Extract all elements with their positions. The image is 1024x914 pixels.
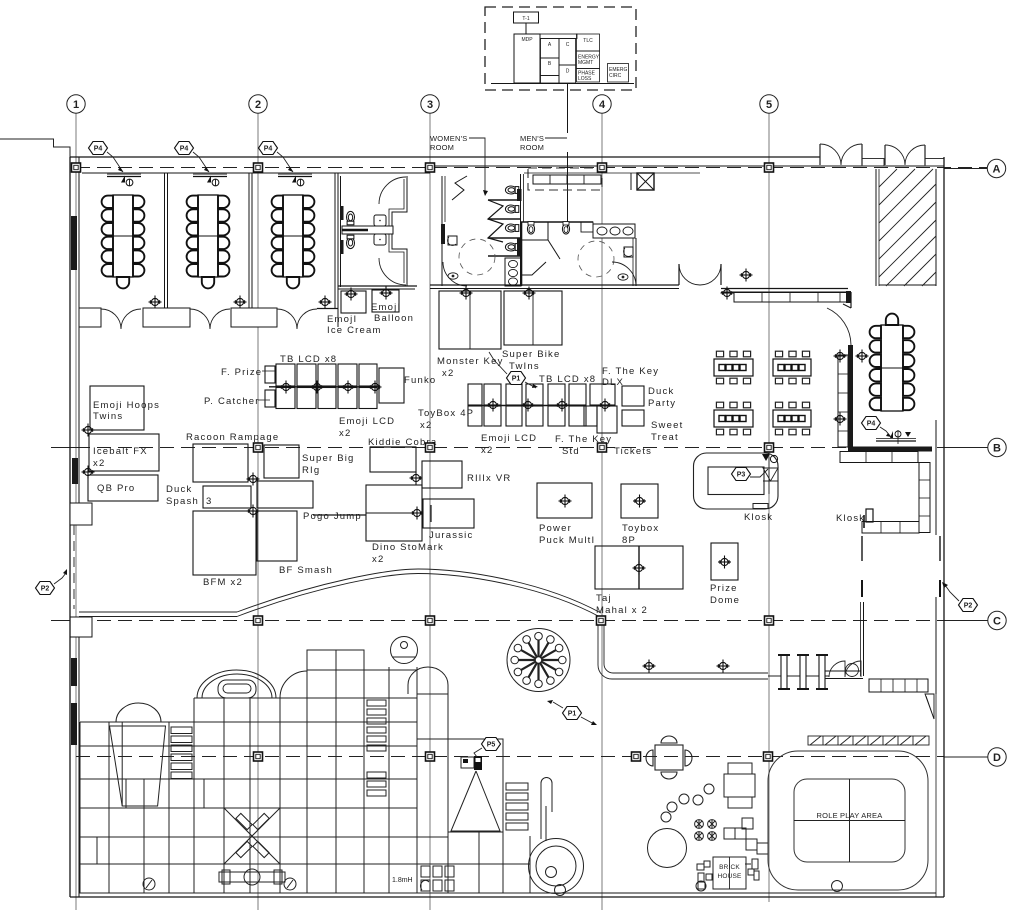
cluster1 boxes upper row: [276, 364, 295, 386]
svg-text:x2: x2: [420, 420, 432, 431]
bubble C: [988, 611, 1006, 629]
svg-text:P3: P3: [737, 472, 746, 479]
svg-text:P. Catcher: P. Catcher: [204, 396, 260, 407]
women's turning circle dashed: [459, 239, 495, 275]
svg-text:x2: x2: [93, 458, 105, 469]
P1 marker cluster2: [489, 352, 538, 388]
playground slat ladder left: [171, 727, 192, 779]
P4 desk bottom right: [876, 430, 916, 444]
meeting table 3: [272, 195, 315, 288]
svg-text:x2: x2: [442, 368, 454, 379]
panel ENERGY MGMT: [577, 51, 600, 69]
men's lavatory counter: [593, 224, 635, 238]
bubble D: [988, 748, 1006, 766]
left wall lower column fills: [71, 658, 77, 686]
game Super Big Rig box: [264, 445, 299, 478]
panel PHASE LOSS: [577, 69, 600, 83]
stall partition walls: [488, 199, 520, 201]
men's exit sign: [618, 274, 628, 280]
playground 1.8mH squares: [420, 866, 454, 891]
svg-text:C: C: [566, 42, 570, 48]
bubble A: [987, 159, 1005, 177]
svg-text:Jurassic: Jurassic: [429, 530, 473, 541]
svg-text:P4: P4: [264, 146, 273, 153]
party room sprinklers: [834, 350, 847, 363]
playground crawl bar: [219, 869, 285, 885]
grid line 4 vertical: [601, 113, 603, 910]
right exterior wall: [943, 157, 945, 897]
bottom right counter segmented: [869, 679, 928, 692]
women's room left wall: [441, 176, 443, 286]
game QB Pro box: [88, 475, 158, 501]
svg-text:P4: P4: [180, 146, 189, 153]
bottom right diagonal ramp: [925, 694, 934, 719]
svg-text:BF Smash: BF Smash: [279, 565, 333, 576]
svg-text:Super Big: Super Big: [302, 453, 355, 464]
game Emoji Hoops Twins box: [90, 386, 144, 430]
svg-text:BRICK: BRICK: [719, 864, 740, 871]
svg-text:RIlIx VR: RIlIx VR: [467, 473, 511, 484]
P4 marker room3: [259, 142, 294, 173]
playground right mid slats: [367, 700, 386, 796]
men's door arc: [612, 262, 636, 286]
top exterior wall outer line: [70, 156, 820, 158]
offset brick lines: [125, 779, 127, 808]
game Funko box: [379, 368, 404, 403]
svg-text:Duck: Duck: [648, 386, 674, 397]
canopy straight segment: [79, 611, 237, 613]
P4 marker party room: [862, 417, 892, 438]
women's exit sign: [448, 273, 458, 279]
men's small closet box: [581, 222, 593, 232]
svg-text:ToyBox 4P: ToyBox 4P: [418, 408, 474, 419]
track sprinklers: [643, 660, 656, 673]
cluster2 boxes lower row: [468, 406, 482, 426]
family restroom door top arc: [379, 177, 406, 204]
svg-text:Racoon Rampage: Racoon Rampage: [186, 432, 279, 443]
panel bottom bus line: [491, 83, 634, 85]
game Rilix VR box: [422, 461, 462, 488]
sprinkler room2: [234, 296, 247, 309]
svg-text:P1: P1: [568, 711, 577, 718]
playground dome left: [116, 703, 161, 722]
room 1 double door arcs: [101, 309, 141, 329]
svg-text:Dome: Dome: [710, 595, 740, 606]
family restroom sink upper: [374, 215, 386, 226]
P2 marker right: [942, 582, 978, 612]
game Racoon Rampage box: [193, 444, 248, 482]
game Taj Mahal x2 box: [595, 546, 683, 589]
svg-text:P2: P2: [41, 586, 50, 593]
svg-text:C: C: [993, 616, 1001, 628]
track gate 1: [778, 655, 790, 689]
svg-text:Puck MultI: Puck MultI: [539, 535, 595, 546]
men's soap fixture: [624, 247, 633, 257]
toddler column stack: [724, 763, 755, 808]
playground right extension grid: [417, 694, 530, 893]
bottom exterior wall: [70, 896, 944, 898]
women's lavatory bank: [505, 258, 521, 286]
entry right panel: [925, 159, 944, 167]
svg-text:Balloon: Balloon: [374, 313, 414, 324]
svg-text:8P: 8P: [622, 535, 636, 546]
role play outer rounded boundary: [768, 751, 928, 890]
game Jurassic box: [423, 499, 474, 528]
svg-text:TLC: TLC: [583, 38, 593, 44]
svg-text:Power: Power: [539, 523, 572, 534]
family restroom right wall with alcoves: [392, 176, 407, 286]
svg-text:Emoji LCD: Emoji LCD: [481, 433, 537, 444]
sprinkler room3: [319, 296, 332, 309]
canopy arc: [237, 569, 601, 613]
left wall pier box at C: [70, 617, 92, 637]
grid line 5 vertical: [768, 113, 770, 902]
game Prize Dome box: [711, 543, 738, 580]
feeder line T-1 to MDP: [525, 23, 527, 34]
grid line 3 vertical: [429, 113, 431, 910]
left exterior wall upper: [69, 157, 71, 609]
svg-text:LOSS: LOSS: [578, 76, 592, 82]
svg-text:Emoji Hoops: Emoji Hoops: [93, 400, 160, 411]
family restroom sink lower: [374, 234, 386, 245]
svg-text:Twins: Twins: [93, 411, 123, 422]
women's room entry privacy zigzag: [452, 176, 467, 200]
svg-text:EmojI: EmojI: [371, 302, 401, 313]
role play bottom circle: [832, 881, 843, 892]
svg-text:Mahal x 2: Mahal x 2: [596, 605, 648, 616]
svg-text:P4: P4: [94, 146, 103, 153]
rooms bottom wall piers: [79, 308, 101, 327]
grid line D horizontal dashed: [76, 756, 944, 758]
toddler table with chairs: [646, 736, 692, 779]
svg-text:Duck: Duck: [166, 484, 192, 495]
svg-text:Prize: Prize: [710, 583, 738, 594]
grid line C horizontal dashed: [51, 620, 76, 622]
women's door arc: [443, 262, 467, 286]
bubble 5: [760, 95, 778, 113]
svg-text:1: 1: [73, 99, 79, 111]
BRICK HOUSE box: [713, 857, 746, 889]
family restroom bottom wall: [338, 285, 417, 287]
soap fixture women's: [448, 236, 457, 245]
svg-text:x2: x2: [339, 428, 351, 439]
toddler figure blocks right of brick house: [745, 859, 759, 880]
svg-text:EmojI: EmojI: [327, 314, 357, 325]
P1 marker track: [547, 700, 597, 725]
P5 marker camera tower: [474, 738, 501, 758]
panel top strip: [540, 34, 577, 39]
svg-text:Super Bike: Super Bike: [502, 349, 560, 360]
playground X rope feature: [224, 808, 280, 864]
panel EMERG CIRC: [608, 64, 629, 83]
grid line A horizontal dashed: [76, 167, 987, 169]
corridor door arc at hallway: [679, 264, 721, 285]
feeder drop to men's room: [567, 84, 569, 134]
svg-text:MDP: MDP: [521, 37, 533, 43]
svg-text:BFM x2: BFM x2: [203, 577, 243, 588]
panel strip below B: [541, 76, 560, 84]
party room west counter segmented: [838, 355, 848, 447]
meeting room 3 TV mount: [278, 174, 312, 186]
svg-text:Funko: Funko: [404, 375, 436, 386]
panel MDP: [514, 34, 540, 83]
svg-text:x2: x2: [372, 554, 384, 565]
meeting room 2 TV mount: [193, 174, 227, 186]
party room thick south wall: [848, 447, 932, 452]
playground right arch: [280, 671, 307, 698]
meeting table 2: [187, 195, 230, 288]
svg-text:QB Pro: QB Pro: [97, 483, 135, 494]
room 2 double door arcs: [190, 309, 230, 329]
grid marker squares: [72, 163, 81, 172]
svg-text:T-1: T-1: [522, 16, 529, 22]
games below family restroom: Emoji Ice Cream: [341, 291, 366, 313]
toddler block shapes: [724, 818, 768, 854]
svg-text:2: 2: [255, 99, 261, 111]
svg-text:Sweet: Sweet: [651, 420, 683, 431]
toddler figure blocks left of brick house: [696, 861, 712, 891]
kiosk L counter: horizontal: [862, 522, 919, 534]
svg-text:Icebalt FX: Icebalt FX: [93, 446, 148, 457]
game Dino Stomark box: [366, 485, 422, 541]
bubble B: [988, 438, 1006, 456]
corridor counter black end: [846, 291, 851, 303]
party room thick west wall: [848, 345, 853, 451]
bubble 2: [249, 95, 267, 113]
men's turning circle dashed: [578, 241, 614, 277]
svg-text:TwIns: TwIns: [509, 361, 540, 372]
transformer T-1: [514, 12, 539, 23]
svg-text:Pogo Jump: Pogo Jump: [303, 511, 362, 522]
svg-text:Klosk: Klosk: [836, 513, 865, 524]
svg-text:ROOM: ROOM: [520, 143, 544, 152]
role play inner structure: [794, 779, 905, 862]
panel D: [559, 65, 576, 83]
svg-text:Spash: Spash: [166, 496, 199, 507]
hatched walkway strip: [808, 736, 929, 745]
svg-text:A: A: [993, 164, 1001, 176]
counter support legs: [861, 536, 863, 561]
playground arch tower: [197, 670, 276, 698]
svg-text:ROOM: ROOM: [430, 143, 454, 152]
panel TLC: [577, 34, 600, 51]
svg-text:TB LCD x8: TB LCD x8: [280, 354, 337, 365]
men's room west wall: [520, 174, 522, 286]
svg-text:3: 3: [427, 99, 433, 111]
playground outer boundary: [80, 667, 417, 893]
panel B: [541, 58, 560, 76]
track gate 2: [797, 655, 809, 689]
svg-text:HOUSE: HOUSE: [717, 873, 742, 880]
svg-text:Ice Cream: Ice Cream: [327, 325, 382, 336]
svg-text:Toybox: Toybox: [622, 523, 659, 534]
kiosk register: [866, 509, 873, 522]
room 3 right wall: [334, 173, 336, 308]
room divider wall 1: [164, 173, 166, 308]
entry door pair 2: [885, 145, 925, 165]
game Super Bike Twins box: [504, 291, 562, 345]
wall sprinklers left: [82, 424, 95, 437]
svg-text:F. The Key: F. The Key: [602, 366, 659, 377]
cluster1 boxes lower row: [276, 388, 295, 409]
men's room divider wall: [521, 222, 523, 286]
svg-text:5: 5: [766, 99, 772, 111]
game Duck Spash 3 box: [203, 486, 251, 508]
svg-text:RIg: RIg: [302, 465, 320, 476]
playground ball tower: [391, 637, 418, 664]
women's stalls zigzag partitions: [488, 200, 503, 242]
family restroom center partition: [342, 226, 393, 234]
room divider wall 2: [248, 173, 250, 308]
family restroom left wall lower: [340, 176, 342, 287]
entry sidelight panel: [862, 159, 884, 167]
svg-text:B: B: [993, 443, 1001, 455]
left wall column fills: [71, 216, 77, 270]
svg-text:P5: P5: [487, 742, 496, 749]
corridor-party wall stub: [850, 292, 852, 308]
game Iceball FX box: [89, 434, 159, 471]
left wall dashed opening: [73, 525, 75, 609]
svg-text:3: 3: [206, 496, 212, 507]
svg-text:Std: Std: [562, 446, 580, 457]
Duck Party boxes: [622, 386, 644, 406]
tall tower top: [307, 650, 364, 670]
dining table 1: [714, 351, 753, 384]
bubble 3: [421, 95, 439, 113]
playground slat ladder right: [506, 783, 528, 830]
grid line 2 vertical: [257, 113, 259, 910]
restroom block bottom wall: [430, 284, 679, 286]
panel A: [541, 39, 560, 59]
grid line 1 vertical: [75, 113, 77, 910]
men's right wall: [635, 238, 637, 286]
party room door arc: [827, 308, 851, 345]
left exterior wall lower: [69, 609, 71, 897]
svg-text:1.8mH: 1.8mH: [392, 877, 413, 884]
svg-text:Party: Party: [648, 398, 676, 409]
entry threshold line: [819, 165, 944, 167]
kiosk L counter right: vertical: [919, 463, 930, 533]
dining table 3: [714, 402, 753, 435]
playground rounded top tower right: [408, 667, 448, 694]
svg-text:WOMEN'S: WOMEN'S: [430, 134, 467, 143]
svg-text:Emoji LCD: Emoji LCD: [339, 416, 395, 427]
toddler casters: [695, 820, 717, 841]
svg-text:D: D: [993, 752, 1001, 764]
game Kiddie Cobra box: [370, 447, 416, 472]
track gate 3: [816, 655, 828, 689]
playground bottom circles: [143, 878, 155, 890]
playground vertical grid lines: [108, 722, 110, 893]
svg-text:Monster Key: Monster Key: [437, 356, 504, 367]
game Pogo Jump box: [257, 481, 313, 508]
P3 marker kiosk: [732, 468, 769, 481]
storage room bottom right walls: [861, 580, 863, 597]
P4 marker room1: [89, 142, 124, 173]
svg-text:MGMT: MGMT: [578, 60, 593, 66]
men's stall partition + angled door: [522, 222, 549, 240]
family restroom toilet upper: [347, 211, 355, 224]
svg-text:P2: P2: [964, 603, 973, 610]
sprinkler room1: [149, 296, 162, 309]
family restroom door bottom arc: [379, 258, 406, 285]
P2 marker left: [36, 569, 68, 595]
game Emoji Balloon: [372, 290, 399, 312]
svg-text:ROLE PLAY AREA: ROLE PLAY AREA: [817, 811, 883, 820]
family restroom toilet lower: [347, 235, 355, 248]
panel dashed enclosure: [485, 7, 636, 90]
dining table 2: [773, 351, 811, 384]
meeting room 1 TV mount: [107, 174, 141, 186]
vestibule counter row: [533, 175, 601, 184]
party room big table: [870, 314, 915, 411]
game BF Smash box: [257, 511, 297, 561]
svg-text:D: D: [566, 69, 570, 75]
panel C: [559, 39, 576, 66]
rooms bottom wall segment to restroom: [317, 308, 338, 310]
F The Key DLX boxes: [590, 384, 615, 405]
meeting table 1: [102, 195, 145, 288]
vestibule dashed soffit: [528, 168, 602, 190]
P4 marker room2: [175, 142, 210, 173]
svg-text:Tickets: Tickets: [614, 446, 652, 457]
game Monster Key x2 box: [439, 291, 501, 349]
svg-text:Dino StoMark: Dino StoMark: [372, 542, 444, 553]
women's wall black columns: [441, 224, 445, 244]
men's urinals: [527, 222, 534, 234]
spiral slide: [529, 778, 584, 896]
playground horizontal grid lines: [80, 721, 417, 723]
family restroom wall black bits: [340, 206, 344, 220]
entry door pair 1: [820, 144, 862, 165]
svg-text:P4: P4: [867, 421, 876, 428]
storage room bottom wall: [820, 670, 861, 672]
svg-text:Treat: Treat: [651, 432, 679, 443]
left wall pier box at B: [70, 503, 92, 525]
grid line B horizontal dashed: [51, 447, 76, 449]
toddler balls: [661, 812, 671, 822]
swing gate arcs: [829, 661, 861, 677]
svg-text:CIRC: CIRC: [609, 73, 622, 79]
game Power Puck Multi box: [537, 483, 592, 518]
game BFM x2 box: [193, 511, 256, 575]
svg-text:x2: x2: [481, 445, 493, 456]
top wall inner line (corridor portion): [430, 165, 819, 167]
playground funnel: [110, 722, 166, 806]
P5 camera tower: [448, 739, 503, 832]
corridor counter segmented: [734, 293, 847, 303]
hatched shaft room top right: [876, 169, 936, 286]
toddler big circle: [648, 829, 687, 868]
svg-text:MEN'S: MEN'S: [520, 134, 544, 143]
men's room top wall: [521, 221, 593, 223]
women's toilets: [505, 186, 518, 194]
svg-text:TB LCD x8: TB LCD x8: [539, 374, 596, 385]
svg-text:4: 4: [599, 99, 606, 111]
bubble 4: [593, 95, 611, 113]
corridor south wall right segment: [721, 288, 848, 290]
svg-text:DLX: DLX: [602, 377, 624, 388]
top wall inner line (rooms portion): [82, 172, 430, 174]
dining table 4: [773, 402, 811, 435]
svg-text:Taj: Taj: [596, 593, 612, 604]
svg-text:P1: P1: [512, 376, 521, 383]
party room south counter segmented: [840, 452, 918, 463]
bubble 1: [67, 95, 85, 113]
F.Prize small boxes: [265, 366, 275, 383]
svg-text:F. Prize: F. Prize: [221, 367, 262, 378]
game Toybox 8P box: [621, 484, 658, 518]
